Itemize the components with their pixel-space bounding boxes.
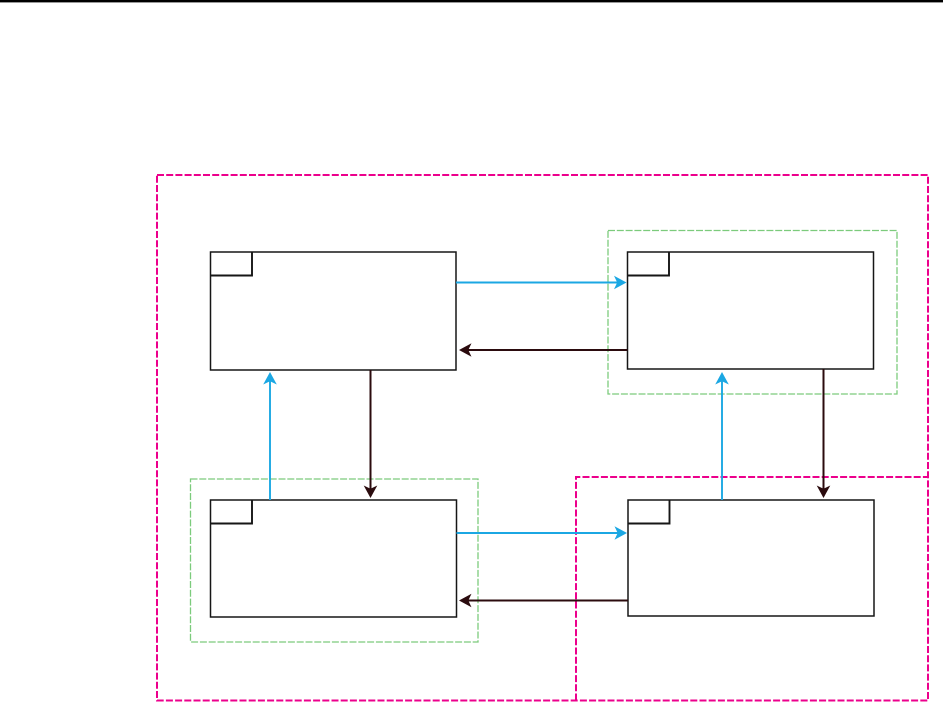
box D corner tab	[628, 500, 670, 524]
magenta dashed boundary 2 (bottom-right)	[576, 477, 928, 701]
dark arrow B to D	[817, 369, 831, 498]
cyan arrow C to D	[457, 526, 628, 540]
box D (bottom-right)	[628, 500, 874, 616]
cyan arrow C to A	[263, 372, 277, 500]
cyan arrow D to B	[715, 372, 729, 500]
cyan arrow A to B	[456, 276, 627, 290]
box A (top-left)	[211, 252, 457, 370]
green dashed boundary (bottom-left)	[191, 479, 479, 642]
top black bar	[0, 0, 943, 2]
dark arrow D to C	[459, 594, 628, 608]
green dashed boundary (top-right)	[608, 231, 897, 395]
dark arrow B to A	[459, 343, 628, 357]
dark arrow A to C	[364, 370, 378, 498]
box C corner tab	[211, 500, 253, 524]
box B (top-right)	[628, 252, 874, 369]
outer magenta dashed boundary	[157, 175, 928, 701]
box B corner tab	[628, 252, 670, 276]
box A corner tab	[211, 252, 253, 276]
box C (bottom-left)	[211, 500, 457, 617]
